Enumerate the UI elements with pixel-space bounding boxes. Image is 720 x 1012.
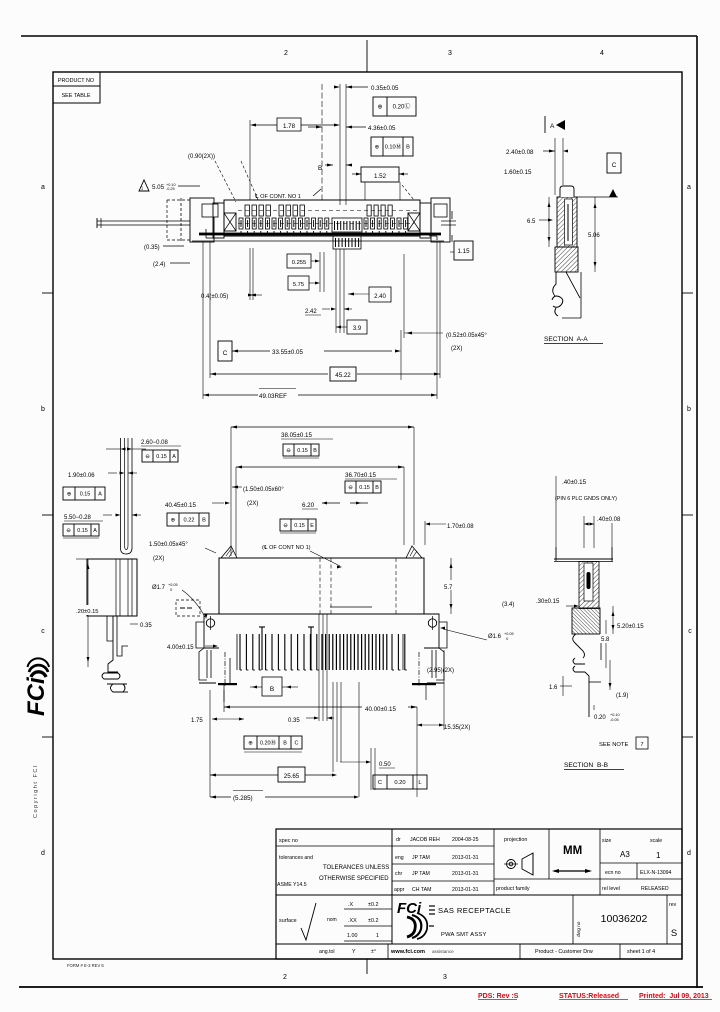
svg-text:0.15: 0.15 [156,454,167,460]
svg-text:+0.05: +0.05 [504,632,514,636]
datum box C [218,341,232,361]
svg-text:Y: Y [352,949,356,955]
svg-text:nom: nom [327,917,337,923]
right bracket lower tick [450,251,454,253]
svg-text:(0.90(2X)): (0.90(2X)) [188,154,215,160]
svg-text:0.35: 0.35 [288,718,300,724]
svg-text:C: C [612,162,617,169]
inner drawing frame [53,72,682,959]
svg-text:10036202: 10036202 [601,913,648,925]
side fcf A1 [142,450,178,462]
footer underlines [478,999,517,1001]
fcf 0.15 E [280,519,316,531]
svg-text:SAS RECEPTACLE: SAS RECEPTACLE [438,906,511,915]
svg-text:C: C [223,350,228,357]
top view: lower slot row right group [364,218,368,229]
ext lines below comb [318,614,320,721]
dim 33.55 [232,350,238,353]
dim 0.35±0.05 [334,86,340,89]
svg-text:0.22: 0.22 [184,518,195,524]
flange edge doubles [236,634,238,670]
svg-text:1: 1 [376,933,379,939]
svg-text:.30±0.15: .30±0.15 [536,599,560,605]
svg-text:+0.05: +0.05 [168,583,178,587]
svg-text:2013-01-31: 2013-01-31 [452,871,479,877]
svg-text:(2X): (2X) [451,346,462,352]
svg-text:1: 1 [141,186,144,191]
svg-text:0: 0 [168,588,172,592]
copyright FCI text left margin (rotated) [33,764,39,818]
dim 36.70 [236,466,404,468]
svg-text:B: B [375,485,379,491]
dim 1.78 [252,124,338,126]
svg-text:SEE TABLE: SEE TABLE [62,93,91,99]
outer sheet border bottom line [19,986,703,988]
top view: center lower protrusion [333,236,361,249]
side view blade lines [120,438,122,548]
dim B basic [250,686,262,688]
side fcf A2 [63,487,105,500]
svg-text:d: d [41,850,45,857]
side view body [87,559,137,616]
svg-text:0.15: 0.15 [77,528,88,534]
svg-text:FCi: FCi [23,676,50,716]
right wing foot thick [412,683,436,685]
svg-text:SEE NOTE: SEE NOTE [599,742,628,748]
top view: lower thin line [192,240,444,242]
svg-text:7: 7 [640,742,643,748]
front view comb pins right [391,634,393,670]
svg-text:2.42: 2.42 [305,309,317,315]
front view chamfer right [406,546,422,558]
svg-text:PRODUCT NO: PRODUCT NO [58,78,94,84]
dim 0.50 [340,761,366,763]
bb solder tails [573,634,585,658]
top view: main body [224,200,420,236]
dashed ref box [176,600,200,616]
svg-text:0.15: 0.15 [359,485,370,491]
bb dim 5.8 [605,620,607,668]
svg-text:Ø1.7: Ø1.7 [152,585,166,591]
svg-text:0.20Ⓜ: 0.20Ⓜ [260,738,276,746]
svg-text:0.20: 0.20 [394,780,405,786]
svg-text:dr: dr [396,837,401,843]
svg-text:0.35: 0.35 [140,623,152,629]
svg-text:(3.4): (3.4) [502,602,514,608]
front view comb pins sparse [239,634,241,670]
svg-text:36.70±0.15: 36.70±0.15 [345,472,376,479]
svg-text:15.35(2X): 15.35(2X) [444,725,470,731]
top view: lower slot dashes [238,223,414,225]
svg-text:0.10Ⓜ: 0.10Ⓜ [385,143,402,151]
dwg no vertical label [576,921,582,937]
front view comb pins tall [261,627,263,670]
svg-text:4.36±0.05: 4.36±0.05 [368,125,396,132]
svg-text:a: a [41,184,45,191]
svg-text:CH TAM: CH TAM [412,887,431,893]
svg-text:38.05±0.15: 38.05±0.15 [281,432,312,439]
product no box [53,72,100,86]
front view left flange [204,614,219,648]
svg-text:⊕: ⊕ [248,740,253,746]
svg-text:40.00±0.15: 40.00±0.15 [365,706,396,713]
left wing bracket [196,622,204,648]
svg-text:.XX: .XX [348,918,357,924]
top view: right bracket [431,198,450,242]
side leaders [76,558,87,560]
fcf position 0.10 [371,137,413,156]
bb hatched wall [579,562,599,609]
svg-text:4.00±0.15: 4.00±0.15 [167,645,194,651]
dim 1.70 right [428,523,446,525]
top view: upper slot row right group [367,205,371,216]
svg-text:1.6: 1.6 [549,685,558,691]
outer sheet border right line [696,36,698,988]
section A-A datum edge line [577,196,618,198]
svg-text:0.20: 0.20 [594,715,606,721]
svg-text:SECTION A-A: SECTION A-A [544,336,588,343]
svg-text:ASME Y14.5: ASME Y14.5 [277,882,307,888]
dim 5.7 vertical [450,558,452,614]
svg-text:.40±0.15: .40±0.15 [562,479,587,486]
dim 2.40 box [369,287,391,302]
scale arrow [554,870,590,872]
svg-text:±0.2: ±0.2 [368,918,378,924]
svg-text:A: A [98,491,102,497]
svg-text:(PIN 6 PLC GNDS ONLY): (PIN 6 PLC GNDS ONLY) [555,496,617,502]
ext lines below top view [249,248,251,300]
zone ticks left edge [42,292,53,294]
front view body [219,558,424,614]
top view: left lead lines [97,220,190,222]
top view: right lead lines [441,220,456,222]
svg-text:sheet 1 of 4: sheet 1 of 4 [627,949,655,955]
svg-text:1.52: 1.52 [374,173,387,180]
front view comb pins dense [321,634,323,670]
svg-text:C: C [378,780,382,786]
svg-text:0.35±0.05: 0.35±0.05 [371,85,399,92]
front view hidden lines [319,558,321,614]
dim 4.36±0.05 [308,126,322,128]
svg-text:6.20: 6.20 [302,502,315,509]
svg-text:product family: product family [496,886,530,892]
svg-text:b: b [687,406,691,413]
svg-text:B: B [283,740,287,746]
svg-text:.40±0.08: .40±0.08 [597,517,621,523]
svg-text:1.50±0.05x45°: 1.50±0.05x45° [149,542,188,548]
svg-text:5.05: 5.05 [152,184,165,191]
svg-text:5.06: 5.06 [588,233,600,239]
dim 5.285 [210,796,216,799]
top view: lower row solder ticks [240,231,242,235]
dim 3.9 box [347,320,367,334]
svg-text:projection: projection [504,837,527,843]
dim 15.35 [417,724,422,727]
svg-text:49.03REF: 49.03REF [259,393,287,400]
front view right flange [424,614,439,648]
title block outline [276,829,682,959]
svg-text:(0.52±0.05x45°: (0.52±0.05x45° [446,333,487,339]
svg-text:(1.50±0.05x60°: (1.50±0.05x60° [243,487,284,493]
note triangle 5.05 [139,180,149,191]
svg-text:6.5: 6.5 [527,219,536,225]
outer sheet border top line [21,35,697,37]
svg-text:2004-08-25: 2004-08-25 [452,837,479,843]
top view: right end cap [420,203,431,238]
svg-text:33.55±0.05: 33.55±0.05 [272,349,303,356]
chamfer note right [404,332,443,334]
svg-text:+0.10: +0.10 [610,713,620,717]
svg-text:2013-01-31: 2013-01-31 [452,887,479,893]
svg-text:0: 0 [504,637,508,641]
svg-text:⊖: ⊖ [145,454,150,460]
svg-text:appr: appr [394,887,405,893]
see table box [53,86,100,103]
svg-text:Ø1.6: Ø1.6 [488,634,502,640]
svg-text:RELEASED: RELEASED [641,886,669,892]
svg-text:℄ OF CONT. NO 1: ℄ OF CONT. NO 1 [254,194,301,200]
fcf C 0.20 L [373,775,427,789]
side view body inner lines [115,559,117,616]
datum box C section [607,153,621,173]
trademark bars [429,905,435,907]
ext line for 1.78 [249,120,251,200]
dim box 1.15 [454,241,473,260]
top view: solder band thick line [199,233,441,236]
svg-text:PWA SMT ASSY: PWA SMT ASSY [441,932,487,938]
svg-text:Product - Customer Drw: Product - Customer Drw [535,949,593,955]
svg-text:B: B [318,165,322,172]
section A-A body hatch upper [557,197,577,247]
svg-text:±°: ±° [371,949,376,955]
side view solder hooks [102,673,120,679]
svg-text:JP TAM: JP TAM [412,855,430,861]
svg-text:0.15: 0.15 [80,491,91,497]
svg-text:ELX-N-13094: ELX-N-13094 [640,870,672,876]
svg-text:3.9: 3.9 [353,326,362,332]
svg-text:B: B [313,448,317,454]
bb dim 1.9 [609,660,611,690]
svg-text:spec no: spec no [279,838,298,844]
svg-text:E: E [310,523,314,529]
fcf 0.20 M B C [244,736,302,749]
dim 5.75 box [288,276,309,290]
svg-text:(2.4): (2.4) [153,262,165,268]
svg-text:5.75: 5.75 [293,282,304,288]
top view: left x-box [224,213,236,231]
section A-A lower hatch [555,247,578,272]
svg-text:SECTION B-B: SECTION B-B [564,762,609,769]
svg-text:3: 3 [448,50,452,57]
title block vertical lines [391,829,393,944]
svg-text:rel level: rel level [602,886,620,892]
right wing centerline [418,652,420,686]
svg-text:assistance: assistance [432,949,454,954]
bb ext lines [555,476,557,559]
svg-text:MM: MM [563,845,582,857]
svg-text:(2.95)(2X): (2.95)(2X) [427,668,454,674]
svg-text:rev: rev [669,902,677,908]
dim 49.03 REF [203,394,209,397]
svg-text:A: A [172,454,176,460]
svg-text:-0.25: -0.25 [166,187,175,191]
top view: lower slot row left group [239,218,243,229]
svg-text:PDS: Rev :S: PDS: Rev :S [478,993,519,1000]
svg-text:0.15: 0.15 [294,523,305,529]
front view chamfer left [221,546,237,558]
svg-text:.20±0.15: .20±0.15 [76,609,99,615]
left post circle [206,619,214,627]
front view inner shelf line [330,606,372,608]
svg-text:d: d [687,850,691,857]
svg-text:1.60±0.15: 1.60±0.15 [504,169,532,176]
FCI logo left margin (rotated) [23,658,50,716]
svg-text:-0.05: -0.05 [610,718,619,722]
ext lines 1.52 [364,182,366,200]
svg-text:5.50−0.28: 5.50−0.28 [64,515,92,521]
svg-text:B: B [270,686,274,693]
top view: upper slot row left group [245,205,249,216]
side fcf A3 [63,524,99,536]
svg-text:(℄ OF CONT NO 1): (℄ OF CONT NO 1) [262,545,311,551]
svg-text:0.20Ⓛ: 0.20Ⓛ [393,103,411,111]
svg-text:⊖: ⊖ [286,448,291,454]
svg-text:0.15: 0.15 [297,448,308,454]
bb lower hatch block [572,608,600,634]
svg-text:(2X): (2X) [153,556,164,562]
svg-text:B: B [202,518,206,524]
top view: left bracket [190,198,214,242]
svg-text:c: c [41,628,45,635]
side view lower steps [107,616,113,641]
svg-text:B: B [406,145,410,151]
svg-text:⊖: ⊖ [66,528,71,534]
svg-text:eng: eng [395,855,404,861]
svg-text:a: a [687,184,691,191]
svg-text:ang.tol: ang.tol [319,949,335,955]
top view: upper slot row dashes [238,210,420,212]
fcf position 0.20 [373,97,416,116]
svg-text:TOLERANCES UNLESS: TOLERANCES UNLESS [323,865,389,871]
svg-text:(1.9): (1.9) [616,693,628,699]
svg-text:0.4(±0.05): 0.4(±0.05) [201,294,228,300]
side view blade tip [121,548,133,554]
svg-text:JP TAM: JP TAM [412,871,430,877]
svg-text:⊕: ⊕ [377,105,382,111]
svg-text:S: S [671,928,677,939]
tolerance table [344,908,392,910]
svg-text:(5.285): (5.285) [233,795,253,802]
svg-text:Copyright FCI: Copyright FCI [33,764,39,818]
svg-text:⊖: ⊖ [348,485,353,491]
svg-text:L: L [418,780,422,786]
dim 25.65 [210,774,216,777]
section arrow A [544,116,546,133]
bb dim 5.20 [612,606,614,634]
svg-text:b: b [41,406,45,413]
svg-text:dwg no: dwg no [576,921,582,937]
svg-text:FORM # E-3 REV 6: FORM # E-3 REV 6 [67,963,104,968]
svg-text:5.20±0.15: 5.20±0.15 [617,624,644,630]
side vertical dim bracket [87,559,89,667]
svg-text:JACOB REH: JACOB REH [410,837,440,843]
svg-text:1.70±0.08: 1.70±0.08 [447,524,474,530]
svg-text:0.50: 0.50 [379,762,391,768]
svg-text:25.65: 25.65 [284,773,300,780]
svg-text:size: size [602,838,611,844]
svg-text:1.78: 1.78 [283,123,296,130]
svg-text:5.7: 5.7 [444,585,453,591]
top view: left end cap [213,203,224,238]
dim 45.22 [210,373,216,376]
svg-text:1.00: 1.00 [347,933,358,939]
svg-text:2: 2 [284,50,288,57]
zone tick bottom [366,959,368,974]
section A-A top cap [560,186,574,197]
dim 40.00 [224,706,362,708]
zone tick top [366,40,368,72]
svg-text:ecn no: ecn no [605,870,621,876]
svg-text:1.75: 1.75 [191,718,203,724]
side dim 2.60 [121,448,126,451]
svg-text:.X: .X [348,902,353,908]
svg-text:2: 2 [283,974,287,981]
svg-text:tolerances and: tolerances and [279,855,313,861]
svg-text:2.60−0.08: 2.60−0.08 [141,440,169,446]
right extension end ticks [451,211,453,219]
svg-text:scale: scale [650,838,662,844]
left wing foot thick [218,683,237,685]
svg-text:1.90±0.06: 1.90±0.06 [68,473,95,479]
section A-A solder tail [553,272,556,296]
svg-text:A: A [93,528,97,534]
svg-text:⊕: ⊕ [67,491,72,497]
FCI logo title block [397,900,427,939]
svg-text:3: 3 [443,974,447,981]
svg-text:1: 1 [656,851,661,860]
svg-text:A3: A3 [620,850,630,859]
zone ticks right edge [682,292,693,294]
svg-text:Printed: Jul 09, 2013: Printed: Jul 09, 2013 [639,993,709,1000]
svg-text:STATUS:Released: STATUS:Released [559,993,619,1000]
svg-text:2.40: 2.40 [374,294,386,300]
top view: right x-box [408,213,420,231]
svg-text:(2X): (2X) [247,501,258,507]
svg-text:⊕: ⊕ [375,145,380,151]
ext lines above front view [230,427,232,556]
svg-text:www.fci.com: www.fci.com [390,949,425,955]
svg-text:chr: chr [395,871,402,877]
svg-text:±0.2: ±0.2 [368,902,378,908]
dim 1.52 basic [356,173,361,176]
title block horizontal lines [276,845,494,847]
svg-text:⊖: ⊖ [283,523,288,529]
svg-text:2013-01-31: 2013-01-31 [452,855,479,861]
svg-text:OTHERWISE SPECIFIED: OTHERWISE SPECIFIED [319,876,389,882]
svg-text:40.45±0.15: 40.45±0.15 [165,502,196,509]
note 1.50x60 [232,486,238,489]
bb top plate [554,558,613,560]
svg-text:(0.35): (0.35) [144,245,160,251]
svg-text:surface: surface [279,918,297,924]
top view: center contact block [332,218,362,232]
svg-text:5.8: 5.8 [601,637,610,643]
svg-text:A: A [550,123,555,130]
svg-text:c: c [688,628,692,635]
dim 0.255 box [287,254,311,268]
section A-A right dim 5.06 [594,197,596,272]
svg-text:45.22: 45.22 [335,372,351,379]
